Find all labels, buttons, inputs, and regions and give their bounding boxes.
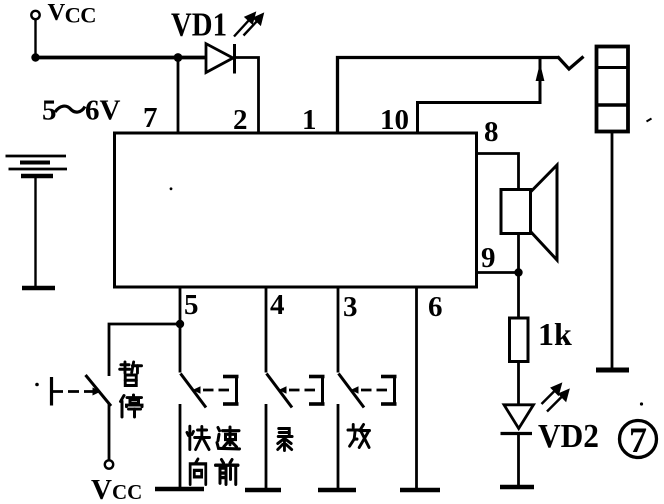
switch S4 lever (pin 3) <box>339 374 365 408</box>
arrow on pin 10 wire <box>536 63 545 81</box>
ground pin 3 <box>318 488 356 493</box>
wire speaker to resistor <box>517 234 520 319</box>
terminal VCC bottom <box>105 460 113 468</box>
ground pin 4 <box>245 488 281 493</box>
node VD1 anode junction <box>174 53 183 62</box>
switch S3 dashed link <box>279 386 287 393</box>
wire pin 5 <box>179 286 182 373</box>
wire pin 6 <box>415 286 418 490</box>
hook at end of pin 1 wire <box>558 57 584 70</box>
switch S2 dashed link <box>193 386 201 393</box>
svg-text:4: 4 <box>270 289 285 321</box>
switch S4 actuator bracket <box>381 375 397 406</box>
ground battery <box>22 286 55 291</box>
power terminal VCC <box>31 11 39 19</box>
wire head to ground <box>611 132 614 369</box>
svg-text:1k: 1k <box>538 316 572 352</box>
svg-text:2: 2 <box>233 104 248 136</box>
wire pause to VCC terminal <box>108 404 111 461</box>
wire pin 10 <box>418 58 541 134</box>
resistor R1 1k <box>510 318 529 362</box>
node pin 5 junction <box>176 320 184 328</box>
LED arrows VD1 <box>234 14 263 37</box>
svg-text:6: 6 <box>428 291 443 323</box>
scan speck inside IC <box>170 187 173 190</box>
wire pin 8 to speaker <box>477 154 519 190</box>
svg-text:7: 7 <box>143 102 158 134</box>
wire pin 5 switch to ground <box>179 404 182 489</box>
battery B1 <box>6 156 68 176</box>
wire pause branch <box>109 324 180 376</box>
wire pin 3 switch to ground <box>337 404 340 490</box>
switch S1 fixed contact <box>50 377 53 406</box>
svg-text:9: 9 <box>481 242 496 274</box>
switch S2 actuator bracket <box>223 375 239 406</box>
svg-text:8: 8 <box>484 116 499 148</box>
wire VCC terminal to rail <box>34 19 36 57</box>
node pin 9 junction <box>514 268 522 276</box>
switch S4 dashed link <box>351 386 359 393</box>
wire pin 9 <box>477 271 519 274</box>
ground pin 5 <box>155 487 204 492</box>
scan speck near figure number <box>640 402 643 405</box>
diode VD2 (LED) <box>501 405 534 434</box>
tape head <box>597 47 629 132</box>
ground VD2 <box>500 485 534 490</box>
wire pin 7 <box>177 58 180 134</box>
figure number (7) <box>620 421 657 458</box>
svg-text:VCC: VCC <box>48 0 96 27</box>
LED arrows VD2 <box>542 385 569 412</box>
wire pin 4 <box>265 286 268 373</box>
wire resistor to VD2 <box>517 362 520 405</box>
ground head <box>596 368 629 373</box>
label fast-forward 快速向前 <box>187 426 210 449</box>
IC U1 <box>115 133 477 287</box>
diode VD1 (LED) <box>206 44 235 74</box>
wire pin 1 up and to the right <box>338 58 559 134</box>
switch S1 dashed link <box>52 390 95 393</box>
label pause 暂停 <box>120 362 142 386</box>
svg-text:10: 10 <box>380 104 409 136</box>
label record 录 <box>278 429 292 451</box>
label play 放 <box>348 425 370 448</box>
switch S1 pause lever <box>86 375 112 406</box>
switch S3 lever (pin 4) <box>267 374 293 408</box>
wire pin 4 switch to ground <box>265 404 268 490</box>
svg-text:6V: 6V <box>85 95 121 127</box>
node rail left junction <box>31 53 39 61</box>
scan speck right edge <box>647 119 652 122</box>
switch S3 actuator bracket <box>309 375 325 406</box>
svg-text:VD1: VD1 <box>171 7 227 44</box>
speaker LS <box>501 190 531 234</box>
scan speck left margin <box>35 383 39 387</box>
svg-text:5: 5 <box>184 289 199 321</box>
wire VD2 to ground <box>517 435 520 487</box>
wire battery negative down <box>34 177 36 287</box>
switch S2 lever (pin 5) <box>181 374 207 408</box>
svg-text:VD2: VD2 <box>538 418 599 455</box>
ground pin 6 <box>400 488 440 493</box>
svg-text:1: 1 <box>302 104 317 136</box>
wire VD1 cathode to pin 2 <box>235 58 259 134</box>
wire pin 3 <box>337 286 340 373</box>
wire VCC rail <box>34 56 206 60</box>
svg-text:7: 7 <box>629 420 647 460</box>
svg-text:3: 3 <box>343 291 358 323</box>
